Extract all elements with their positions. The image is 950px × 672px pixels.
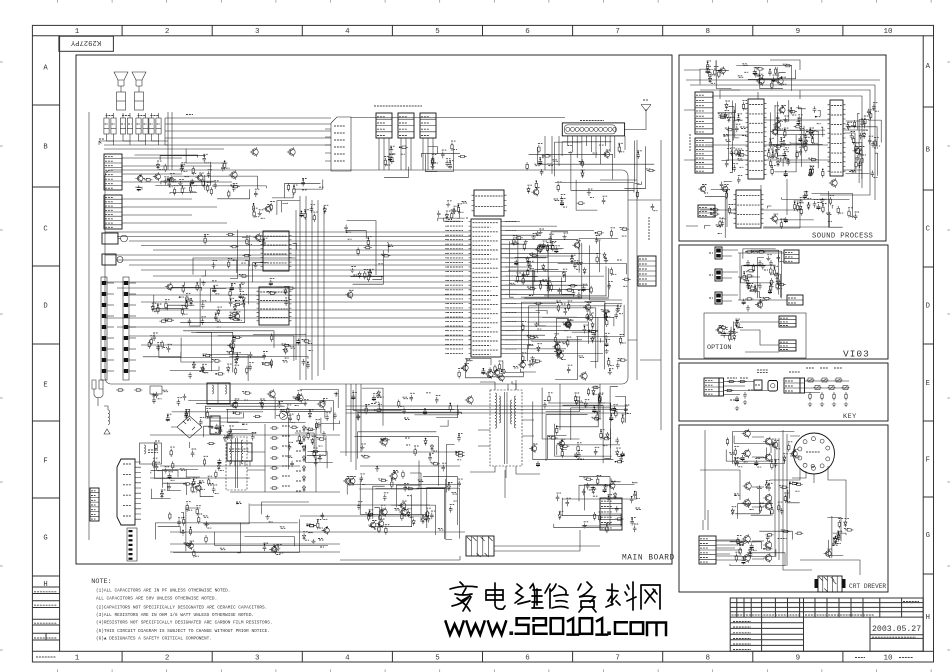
resistor [317,521,319,529]
label [597,239,601,241]
diode [749,548,752,555]
label [605,338,609,340]
ground [303,401,307,406]
label [181,187,185,189]
capacitor [871,141,875,148]
ground [334,392,338,397]
label [596,235,601,237]
resistor [555,343,557,351]
resistor [855,145,857,153]
label [806,367,814,369]
capacitor [753,287,757,294]
resistor [706,62,708,70]
label [358,501,363,503]
label [806,129,811,131]
label [527,286,531,288]
title cells in left margin [32,594,60,641]
diode [368,511,371,518]
label [346,230,351,232]
resistor [185,543,193,545]
diode [424,439,427,446]
switch [808,378,813,382]
label [609,368,613,370]
label [529,260,534,262]
label title row [733,621,751,623]
diode [734,459,737,466]
label [369,509,374,511]
component cluster chroma parts [163,176,323,199]
wire [703,510,744,554]
label [721,218,726,220]
resistor [294,397,302,399]
diode [217,309,220,316]
label [240,290,245,292]
wire [724,382,769,395]
capacitor [720,220,724,227]
label [267,203,272,205]
capacitor (electrolytic) [104,118,109,134]
transistor [167,284,173,290]
label [733,331,737,333]
label [548,165,552,167]
resistor [431,158,433,166]
resistor [794,125,802,127]
label [732,506,736,508]
resistor [367,274,369,282]
capacitor [288,416,292,423]
label [513,365,517,367]
resistor [771,461,773,469]
resistor [302,340,310,342]
capacitor [383,494,387,501]
label [775,459,779,461]
label [231,340,236,342]
resistor [620,228,628,230]
diode [776,160,779,167]
label [448,219,452,221]
label [537,343,541,345]
label [560,444,564,446]
resistor [577,444,579,452]
transistor [609,483,615,489]
transistor [381,439,387,445]
diode [811,132,814,139]
label [287,404,292,406]
ground [318,457,322,462]
char 维 [515,584,543,608]
label [533,335,537,337]
resistor [577,202,585,204]
label [449,160,454,162]
inductor coil [230,440,232,464]
component cluster video amp B [730,530,804,566]
connector CRT board input [818,576,842,592]
capacitor [380,507,384,514]
label [770,281,774,283]
resistor [595,232,603,234]
capacitor [302,359,306,366]
label [277,544,282,546]
label [205,162,209,164]
resistor [170,449,172,457]
capacitor [624,406,628,413]
transistor [494,370,500,376]
ground [583,523,587,528]
inductor coil [108,410,110,424]
label [319,539,324,541]
label [785,147,789,149]
capacitor [799,149,803,156]
transistor [559,441,565,447]
label [376,395,381,397]
label [280,526,285,528]
label [318,538,323,540]
capacitor [254,191,258,198]
capacitor (electrolytic) [538,159,542,165]
diode [733,334,736,341]
wire right edge verticals [600,140,661,430]
label [165,299,170,301]
label [193,477,198,479]
label [295,405,299,407]
label [590,338,594,340]
capacitor (electrolytic) [604,341,608,347]
inductor coil [144,445,146,454]
label [740,126,745,128]
svg-text:(3)ALL RESISTORS ARE IN OHM 1/: (3)ALL RESISTORS ARE IN OHM 1/6 WATT UNL… [96,613,254,618]
label [611,227,616,229]
resistor [287,183,289,191]
label [431,510,436,512]
label [547,163,551,165]
resistor [432,156,434,164]
wire [122,158,232,223]
ground [766,256,770,261]
transistor [319,401,325,407]
ground [604,335,608,340]
IC reset S301 [754,380,762,390]
SOUND PROCESS box [679,55,886,241]
resistor [522,354,524,362]
ground [227,434,231,439]
label [458,433,463,435]
label [458,368,463,370]
resistor [516,274,518,282]
label [727,377,737,379]
resistor [159,320,167,322]
resistor [822,205,824,213]
label [773,129,778,131]
label [460,211,464,213]
resistor [253,415,261,417]
label [794,200,798,202]
resistor [189,185,191,193]
capacitor [360,475,364,482]
connector [90,488,99,521]
label [749,283,753,285]
capacitor [453,208,457,215]
resistor [811,167,813,175]
label [755,458,760,460]
label [623,285,627,287]
label [150,335,155,337]
label [725,139,729,141]
connector [719,378,724,396]
label [353,274,357,276]
label [438,528,443,530]
ground [738,152,742,157]
label [204,455,209,457]
label [185,409,190,411]
label [771,79,775,81]
connector [695,92,713,134]
resistor [196,507,198,515]
transistor [297,395,303,401]
label [580,162,584,164]
diode [302,465,305,472]
diode [724,112,727,119]
resistor [718,116,726,118]
resistor [734,448,736,456]
resistor [253,210,255,218]
capacitor [615,437,619,444]
label [577,458,581,460]
label [838,518,843,520]
label [736,541,741,543]
capacitor [769,260,773,267]
diode [591,336,594,343]
capacitor (electrolytic) [797,119,801,125]
diode [735,321,738,328]
label [738,148,742,150]
resistor [228,190,230,198]
wire [379,138,389,170]
svg-text:ALL CAPACITORS ARE 50V UNLESS: ALL CAPACITORS ARE 50V UNLESS OTHERWISE … [96,597,217,602]
resistor [590,286,592,294]
label [561,438,565,440]
label [195,555,199,557]
capacitor (electrolytic) [582,286,586,292]
label [453,493,458,495]
diode [542,264,545,271]
resistor [770,278,772,286]
transistor [792,451,798,457]
label [579,402,583,404]
resistor [230,245,238,247]
label [781,529,785,531]
label [757,75,761,77]
label [764,269,768,271]
svg-text:8: 8 [705,28,710,36]
label [793,482,797,484]
svg-text:D: D [926,303,930,311]
capacitor (electrolytic) [215,424,219,430]
capacitor [847,124,851,131]
transistor [188,543,194,549]
label [169,186,173,188]
capacitor (electrolytic) [542,243,546,249]
capacitor [786,159,790,166]
resistor [609,408,617,410]
transistor [137,176,143,182]
capacitor (electrolytic) [299,211,303,217]
transistor [370,522,376,528]
label [710,207,715,209]
resistor [728,206,730,214]
transistor [772,129,778,135]
label [511,284,516,286]
label [151,115,159,117]
resistor [268,292,276,294]
wire IC left pins [445,222,447,354]
label [620,453,625,455]
label [783,453,788,455]
label [799,134,803,136]
ground [615,308,619,313]
label [777,157,782,159]
safety triangle [104,429,110,434]
diode [189,299,192,306]
label [302,189,307,191]
svg-text:8: 8 [705,655,710,663]
capacitor [199,419,203,426]
resistor [738,154,746,156]
label [167,413,172,415]
label [138,115,146,117]
label [199,480,204,482]
label [285,357,289,359]
resistor [206,184,208,192]
diode [592,487,595,494]
resistor [566,289,574,291]
bridge rectifier [171,410,214,448]
label [781,76,785,78]
resistor [870,111,872,119]
label [875,110,879,112]
capacitor [860,121,864,128]
label [584,521,588,523]
capacitor [771,441,775,448]
label [446,210,451,212]
resistor [719,220,721,228]
label [856,145,861,147]
label [510,282,515,284]
central circuit enclosure (rounded) [105,170,628,384]
capacitor [163,178,167,185]
resistor [293,187,295,195]
diode [323,207,326,214]
capacitor [167,484,171,491]
label [351,476,356,478]
capacitor (electrolytic) [784,217,788,223]
component cluster sound bottom-left [698,181,734,238]
ground [820,402,824,407]
label [226,167,230,169]
row letter band right (A-H) [923,107,933,574]
label [739,166,743,168]
label [434,162,438,164]
resistor [539,282,541,290]
capacitor [152,397,156,404]
label [581,169,585,171]
transistor [758,78,764,84]
wire [150,435,460,516]
label [817,202,821,204]
resistor [155,442,157,450]
ground [152,393,156,398]
label title row [733,626,751,628]
label [315,457,320,459]
resistor [794,483,802,485]
label [404,398,409,400]
label [795,490,799,492]
label [574,260,578,262]
capacitor column (polarized) [101,277,107,380]
label [433,450,437,452]
label [725,100,729,102]
label [776,448,780,450]
label [617,306,621,308]
resistor [833,392,835,400]
transistor [574,242,580,248]
label (chinese) [34,622,56,624]
connector [784,250,799,263]
label [743,100,748,102]
label [432,154,437,156]
char 资 [578,582,596,612]
transistor [765,438,772,445]
resistor [838,520,840,528]
label [410,392,415,394]
transistor [765,503,772,510]
wire [740,322,779,352]
ground [446,202,450,207]
capacitor (electrolytic) [239,293,243,299]
diode [151,305,154,312]
capacitor [759,299,763,306]
label (chinese) [34,604,56,606]
svg-text:9: 9 [796,28,801,36]
resistor [587,388,589,396]
label [776,281,780,283]
wire [722,295,738,301]
label [861,118,866,120]
capacitor [774,461,778,468]
resistor [297,413,299,421]
connector [698,205,715,217]
label [389,154,394,156]
label [759,502,763,504]
resistor [771,508,773,516]
resistor [763,297,771,299]
resistor [379,479,387,481]
svg-text:SOUND PROCESS: SOUND PROCESS [812,233,873,241]
capacitor [152,335,156,342]
capacitor (electrolytic) [372,395,376,401]
label [826,212,830,214]
diode [731,508,734,515]
label [212,359,217,361]
label [188,509,192,511]
resistor [282,344,290,346]
resistor [606,319,608,327]
label (vertical) [689,134,691,136]
capacitor [630,497,634,504]
label [169,471,174,473]
label [530,268,534,270]
diode [805,139,808,146]
MAIN BOARD enclosure box [76,55,672,564]
